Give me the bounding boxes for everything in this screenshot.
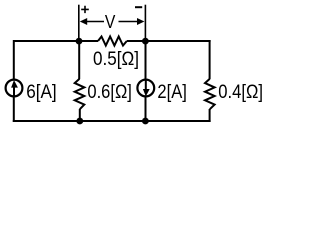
voltage arrow right shaft [119, 21, 139, 23]
wire top-right segment [127, 40, 211, 42]
voltage terminal bar left [78, 5, 80, 41]
node C dot (bottom left) [76, 118, 83, 125]
current source 6[A] arrow [11, 80, 18, 96]
wire right side upper [209, 40, 211, 79]
svg-text:0.6[Ω]: 0.6[Ω] [87, 82, 131, 103]
wire right side lower [209, 109, 211, 122]
resistor 0.5[Ω] zigzag [98, 37, 127, 46]
branch wire node B to source 2[A] [145, 41, 147, 80]
branch wire node A to resistor 0.6 [78, 41, 80, 79]
svg-text:0.5[Ω]: 0.5[Ω] [93, 49, 139, 70]
wire left side lower [13, 96, 15, 122]
node D dot (bottom right) [142, 118, 149, 125]
wire top-left segment [14, 40, 98, 42]
voltage arrowhead right [137, 18, 144, 25]
minus sign [135, 6, 142, 8]
svg-text:V: V [105, 12, 116, 32]
branch wire resistor 0.6 to node C [79, 109, 81, 121]
resistor 0.4[Ω] zigzag [205, 79, 215, 109]
node A dot (top left) [76, 38, 83, 45]
node B dot (top right) [142, 38, 149, 45]
current source 2[A] arrow [143, 80, 150, 96]
current source 2[A] circle [137, 80, 154, 97]
current source 6[A] circle [6, 80, 23, 97]
wire bottom [13, 120, 211, 122]
wire left side upper [13, 40, 15, 80]
svg-text:6[A]: 6[A] [26, 82, 57, 103]
branch wire source 2[A] to node D [145, 96, 147, 121]
plus sign [81, 6, 89, 13]
voltage arrow left shaft [87, 21, 105, 23]
voltage terminal bar right [144, 5, 146, 41]
voltage arrowhead left [80, 18, 87, 25]
svg-text:2[A]: 2[A] [157, 82, 187, 103]
resistor 0.6[Ω] zigzag [75, 79, 85, 109]
svg-text:0.4[Ω]: 0.4[Ω] [218, 82, 263, 103]
